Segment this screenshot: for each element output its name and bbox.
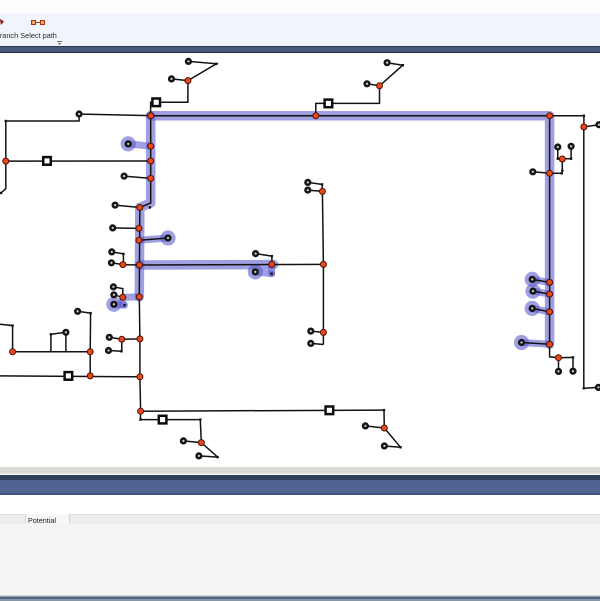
open end 21: [199, 418, 201, 420]
node J26: [120, 294, 126, 300]
wire 16: [558, 158, 571, 160]
canvas: [0, 53, 600, 467]
terminal T5: [76, 110, 83, 117]
wire 25: [550, 344, 559, 357]
wire 24: [522, 343, 550, 345]
switch S4: [65, 372, 73, 380]
open end 1: [215, 63, 217, 65]
terminal T34: [555, 368, 562, 375]
wire 43: [13, 351, 91, 353]
open end 6: [0, 192, 2, 194]
terminal T26: [106, 334, 113, 341]
wire 50: [308, 182, 323, 191]
open end 8: [271, 255, 273, 257]
terminal T24: [529, 305, 536, 312]
wire 44: [65, 332, 67, 352]
tab strip: [0, 514, 600, 525]
wire 27: [559, 357, 574, 371]
selected terminal highlight 1: [121, 136, 136, 151]
selected terminal highlight 5: [525, 272, 540, 287]
node J6: [581, 124, 587, 130]
node J17: [136, 262, 142, 268]
wire 15: [570, 146, 572, 158]
active tab: Potential: [25, 514, 70, 525]
wire 53: [311, 343, 324, 344]
wire 31: [113, 227, 139, 230]
wire 62: [141, 419, 201, 421]
selected path highlight segment 8: [268, 264, 275, 273]
wire 30: [115, 205, 140, 207]
toolbar label: Select path: [20, 31, 57, 40]
top white strip: [0, 0, 600, 13]
open end 5: [5, 120, 7, 122]
wire 10: [151, 115, 584, 117]
open end 22: [139, 418, 141, 420]
open end 25: [583, 387, 585, 389]
wire 61: [140, 411, 142, 419]
wire 58: [365, 426, 384, 428]
wire 28: [139, 116, 150, 412]
blue band: [0, 480, 600, 495]
wire 35: [112, 252, 124, 265]
dark splitter bar: [0, 46, 600, 53]
open end 12: [50, 333, 52, 335]
node J11: [547, 170, 553, 176]
wire 22: [533, 291, 550, 294]
wire 65: [201, 443, 217, 458]
open end 4: [583, 115, 585, 117]
selected path highlight segment 13: [522, 343, 550, 345]
terminal T40: [195, 452, 202, 459]
gray band below canvas: [0, 467, 600, 475]
terminal T4: [384, 59, 391, 66]
terminal T21: [110, 291, 117, 298]
node J20: [319, 188, 325, 194]
open end 2: [402, 64, 404, 66]
node J32: [87, 373, 93, 379]
terminal T14: [164, 234, 171, 241]
wire 37: [113, 287, 122, 297]
open end 15: [572, 356, 574, 358]
selected path highlight segment 4: [128, 144, 151, 146]
wire 57: [383, 410, 385, 428]
window bottom border: [0, 595, 600, 601]
open end 14: [89, 312, 91, 314]
node J9: [148, 158, 154, 164]
node J12: [148, 175, 154, 181]
node J29: [137, 336, 143, 342]
node J16: [120, 262, 126, 268]
wire 38: [109, 337, 122, 339]
node J8: [3, 158, 9, 164]
selected path highlight segment 1: [151, 116, 550, 345]
open end 9: [270, 272, 272, 274]
node J25: [556, 355, 562, 361]
node J3: [148, 113, 154, 119]
toolbar label: Select branch (cut): [0, 31, 18, 40]
terminal T33: [518, 339, 525, 346]
selected path highlight segment 5: [139, 238, 168, 240]
node J4: [313, 113, 319, 119]
wire 1: [172, 79, 188, 81]
terminal T2: [185, 58, 192, 65]
terminal T18: [252, 268, 259, 275]
wire 40: [121, 339, 123, 351]
selected path highlight segment 12: [532, 308, 549, 311]
node J10: [559, 156, 565, 162]
wire 47: [0, 375, 140, 378]
terminal T17: [252, 250, 259, 257]
open end 26: [321, 183, 323, 185]
open end 20: [399, 446, 401, 448]
wire 34: [123, 264, 139, 266]
node J7: [148, 143, 154, 149]
switch S5: [326, 407, 334, 415]
terminal T27: [62, 329, 69, 336]
wire 46: [0, 324, 13, 352]
selected path highlight segment 6: [123, 297, 140, 305]
wire 12: [584, 125, 599, 127]
terminal T12: [112, 202, 119, 209]
wire 5: [1, 114, 79, 193]
wire 36: [114, 295, 123, 298]
wire 29: [124, 176, 151, 178]
switch S2: [325, 100, 333, 108]
terminal T15: [108, 248, 115, 255]
open end 24: [561, 170, 563, 172]
wire 6: [6, 160, 151, 162]
terminal T6: [595, 121, 600, 128]
wire 11: [583, 116, 585, 127]
terminal T3: [363, 80, 370, 87]
switch S6: [159, 416, 167, 424]
wire 13: [584, 127, 599, 388]
wire 59: [384, 428, 400, 447]
selected path highlight segment 9: [255, 272, 271, 274]
toolbar icon: cut-off select-branch arrow: [0, 19, 4, 25]
terminal T37: [362, 422, 369, 429]
wire 20: [549, 116, 551, 345]
open end 3: [149, 206, 151, 208]
selected terminal highlight 6: [525, 284, 540, 299]
node J5: [547, 113, 553, 119]
wire 21: [532, 279, 549, 282]
selected terminal highlight 4: [248, 264, 263, 279]
terminal T28: [105, 347, 112, 354]
wire 32: [139, 238, 168, 240]
selected path highlight segment 7: [114, 301, 125, 309]
terminal T8: [554, 143, 561, 150]
open end 13: [11, 324, 13, 326]
wire 3: [151, 81, 188, 116]
wire 39: [122, 338, 140, 340]
terminal T35: [569, 368, 576, 375]
toolbar icon: select path (two orange squares): [31, 20, 36, 25]
selected path highlight segment 10: [532, 279, 549, 282]
terminal T38: [381, 442, 388, 449]
node J28: [119, 336, 125, 342]
node J13: [137, 205, 143, 211]
toolbar: [0, 13, 600, 46]
node J22: [547, 291, 553, 297]
terminal T11: [121, 173, 128, 180]
bottom panel: [0, 524, 600, 595]
toolbar overflow chevron: [57, 41, 62, 42]
node J33: [137, 374, 143, 380]
wire 55: [256, 254, 272, 265]
wire 45: [51, 332, 66, 352]
open end 11: [120, 350, 122, 352]
terminal T10: [529, 168, 536, 175]
terminal T22: [110, 283, 117, 290]
node J15: [136, 237, 142, 243]
wire 2: [188, 61, 217, 80]
wire 33: [111, 263, 123, 265]
terminal T36: [595, 384, 600, 391]
node J18: [269, 261, 275, 267]
terminal T20: [529, 288, 536, 295]
wire 17: [561, 159, 563, 171]
selected path highlight segment 2: [139, 116, 150, 297]
terminal T29: [307, 328, 314, 335]
wire 63: [200, 420, 201, 443]
open end 16: [561, 172, 563, 174]
node J30: [10, 349, 16, 355]
wire 64: [183, 441, 201, 443]
wire 7: [380, 63, 403, 86]
selected terminal highlight 2: [160, 230, 175, 245]
node J21: [547, 279, 553, 285]
wire 48: [139, 263, 323, 266]
node J23: [547, 309, 553, 315]
open end 23: [216, 456, 218, 458]
wire 52: [311, 331, 324, 332]
terminal T7: [125, 140, 132, 147]
navy band: [0, 475, 600, 480]
node J1: [185, 78, 191, 84]
wire 14: [557, 147, 559, 159]
wire 19: [533, 172, 550, 174]
selected terminal highlight 7: [525, 301, 540, 316]
wire 49: [322, 191, 323, 332]
terminal T25: [74, 308, 81, 315]
node J2: [377, 83, 383, 89]
terminal T1: [168, 75, 175, 82]
wire 8: [367, 84, 380, 86]
wire 60: [384, 446, 400, 447]
wire 23: [532, 308, 549, 311]
selected path highlight segment 3: [139, 260, 273, 270]
node J24: [547, 341, 553, 347]
node J19: [320, 261, 326, 267]
selected terminal highlight 3: [106, 297, 121, 312]
selected path highlight segment 11: [533, 291, 550, 294]
wire 18: [550, 172, 562, 174]
node J14: [136, 225, 142, 231]
terminal T32: [304, 187, 311, 194]
wire 66: [199, 456, 218, 457]
wire 56: [141, 410, 384, 411]
terminal T31: [304, 179, 311, 186]
switch S3: [43, 157, 51, 165]
wire 54: [322, 332, 324, 344]
wire 26: [558, 358, 560, 372]
node J31: [87, 349, 93, 355]
open end 7: [122, 253, 124, 255]
terminal T30: [307, 340, 314, 347]
node J34: [320, 329, 326, 335]
node J36: [198, 440, 204, 446]
terminal T9: [568, 143, 575, 150]
selected terminal highlight 8: [514, 335, 529, 350]
open end 10: [123, 304, 125, 306]
terminal T23: [110, 301, 117, 308]
node J37: [381, 425, 387, 431]
node J27: [136, 294, 142, 300]
wire 42: [78, 311, 91, 376]
wire 4: [82, 114, 151, 116]
switch S1: [152, 99, 160, 107]
white gap: [0, 495, 600, 514]
wire 9: [316, 86, 380, 116]
wire 51: [308, 190, 323, 191]
open end 19: [383, 409, 385, 411]
open end 18: [570, 158, 572, 160]
terminal T13: [109, 224, 116, 231]
wire 41: [109, 350, 122, 353]
terminal T39: [180, 437, 187, 444]
terminal T16: [108, 259, 115, 266]
open end 17: [557, 158, 559, 160]
node J35: [138, 408, 144, 414]
terminal T19: [529, 276, 536, 283]
